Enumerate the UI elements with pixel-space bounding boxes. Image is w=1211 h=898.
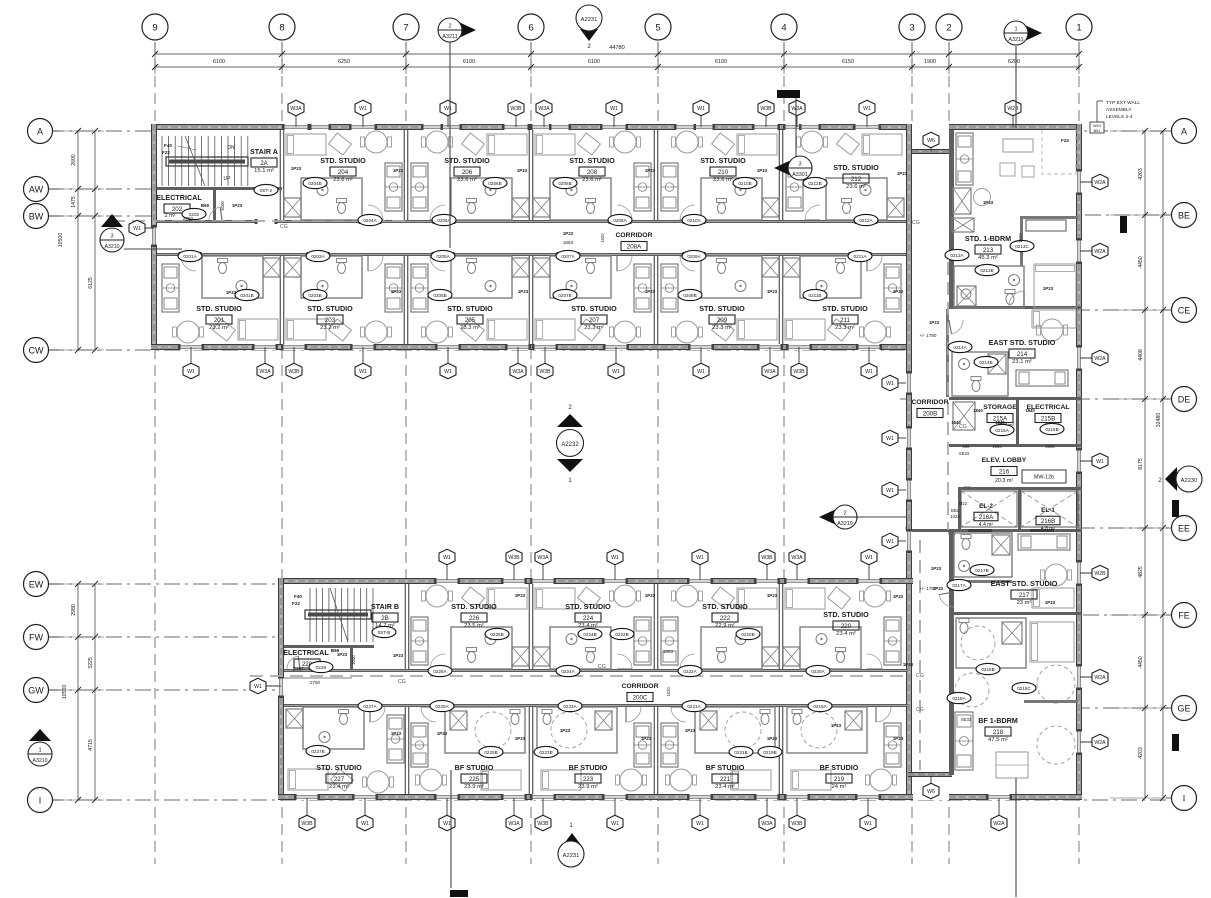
door tag 0224A — [556, 665, 580, 676]
wall tag W2A — [1080, 243, 1108, 259]
svg-text:206: 206 — [462, 169, 473, 176]
svg-text:0ST-B: 0ST-B — [378, 630, 391, 635]
door tag 0212B — [803, 177, 827, 188]
section marker A2232 center — [557, 405, 584, 484]
svg-text:W2A: W2A — [993, 821, 1005, 827]
svg-text:1000: 1000 — [220, 201, 225, 211]
svg-text:BB2: BB2 — [951, 508, 960, 513]
grid line column 6 — [530, 42, 532, 864]
room label STD. STUDIO 203 — [307, 304, 353, 331]
storage/electrical partition — [1016, 399, 1019, 445]
svg-text:0228: 0228 — [316, 665, 327, 670]
top wing exterior north wall — [151, 124, 912, 130]
svg-text:W2A: W2A — [1094, 356, 1106, 362]
svg-text:0212B: 0212B — [808, 181, 821, 186]
room label STD. STUDIO 206 — [444, 156, 490, 183]
party wall top wing row2 at x=656 — [653, 256, 655, 344]
room 214 table — [1041, 319, 1063, 341]
wall tag W1 — [439, 798, 455, 831]
grid line row A — [48, 130, 1170, 132]
svg-text:W1: W1 — [864, 821, 872, 827]
svg-text:W1: W1 — [443, 821, 451, 827]
svg-text:BF STUDIO: BF STUDIO — [569, 763, 608, 772]
room label STD. STUDIO 226 — [451, 602, 497, 629]
svg-text:0207B: 0207B — [558, 293, 571, 298]
typ ext wall note — [1090, 100, 1140, 133]
windows courtyard wall of right wing — [906, 371, 912, 395]
unit STD. STUDIO 207 interior — [550, 256, 611, 298]
dimension line overall 44780 — [152, 42, 1082, 74]
right dimension lines — [1110, 128, 1166, 801]
svg-text:+/- 1780: +/- 1780 — [920, 333, 937, 338]
wall tag W1 — [607, 549, 623, 580]
svg-text:32480: 32480 — [1156, 413, 1162, 428]
svg-text:W1: W1 — [361, 821, 369, 827]
svg-text:0213A: 0213A — [950, 253, 964, 258]
svg-text:A: A — [37, 126, 43, 136]
svg-text:2: 2 — [843, 511, 846, 517]
door tag 0210A — [682, 214, 706, 225]
wall tag W1 — [692, 549, 708, 580]
grid line row AW — [48, 188, 288, 190]
door tag 0223B — [534, 746, 558, 757]
door tag 0204A — [358, 214, 382, 225]
windows right wing south wall — [986, 794, 1012, 800]
wall tag W1 — [440, 100, 456, 127]
svg-text:1620: 1620 — [600, 233, 605, 243]
svg-text:W1: W1 — [187, 369, 195, 375]
wall tag W1 — [693, 100, 709, 127]
wall section bar BE — [1120, 216, 1127, 233]
svg-text:A2231: A2231 — [563, 853, 580, 859]
door tag 0221B — [729, 746, 753, 757]
svg-text:6125: 6125 — [88, 277, 94, 289]
unit BF STUDIO 225 interior — [445, 707, 525, 753]
svg-text:W1: W1 — [254, 684, 262, 690]
svg-text:STD. STUDIO: STD. STUDIO — [569, 156, 615, 165]
wall tag W1 — [250, 678, 281, 694]
svg-text:0206A: 0206A — [437, 218, 451, 223]
svg-text:STD. STUDIO: STD. STUDIO — [320, 156, 366, 165]
door tag 0218C — [1012, 682, 1036, 693]
grid bubble GE right — [1166, 696, 1197, 721]
svg-text:0204A: 0204A — [363, 218, 377, 223]
wall tag W3A — [510, 347, 526, 379]
door tag 0220A — [806, 665, 830, 676]
grid bubble 3 — [899, 14, 925, 40]
bottom wing north wall — [278, 578, 913, 584]
wall tag W2A — [1080, 174, 1108, 190]
wall tag W3A — [257, 347, 273, 379]
room label STD. STUDIO 205 — [447, 304, 493, 331]
svg-text:BF 1-BDRM: BF 1-BDRM — [978, 716, 1018, 725]
door tag 0201A — [178, 250, 202, 261]
svg-text:6100: 6100 — [715, 59, 727, 65]
room 214 kitchen — [1016, 370, 1068, 386]
svg-text:210: 210 — [718, 169, 729, 176]
wall tag W3B — [535, 798, 551, 831]
section marker A2230-2 right — [1158, 466, 1202, 492]
section marker A3210-3 left — [100, 214, 182, 252]
elevator EL-2 cab — [961, 491, 1017, 527]
svg-text:23.6 m²: 23.6 m² — [333, 177, 353, 183]
door tag 0204B — [303, 177, 327, 188]
room 217 table — [1045, 564, 1067, 586]
svg-text:23 m²: 23 m² — [1017, 600, 1032, 606]
room label BF STUDIO 223 — [569, 763, 608, 790]
svg-text:W1: W1 — [611, 821, 619, 827]
svg-text:0217B: 0217B — [975, 568, 988, 573]
svg-text:W1: W1 — [133, 226, 141, 232]
door tag 0203A — [306, 250, 330, 261]
door tag 0213C — [1010, 240, 1034, 251]
grid line column 1 — [1078, 42, 1080, 864]
svg-text:W3B: W3B — [539, 369, 551, 375]
svg-text:W1: W1 — [1096, 459, 1104, 465]
corridor 200B east wall — [946, 309, 949, 397]
svg-text:W1: W1 — [612, 369, 620, 375]
svg-text:15.1 m²: 15.1 m² — [254, 168, 274, 174]
svg-text:EAST STD. STUDIO: EAST STD. STUDIO — [989, 338, 1056, 347]
svg-text:10500: 10500 — [58, 233, 64, 248]
svg-text:23.6 m²: 23.6 m² — [713, 177, 733, 183]
door tag 0206B — [483, 177, 507, 188]
room label STD. STUDIO 210 — [700, 156, 746, 183]
grid bubble I right — [1166, 786, 1197, 811]
svg-text:4450: 4450 — [1138, 256, 1144, 268]
svg-text:0208A: 0208A — [613, 218, 627, 223]
unit STD. STUDIO 226 interior — [487, 588, 527, 609]
svg-text:1P23: 1P23 — [515, 736, 526, 741]
wall tag W6 — [923, 132, 939, 152]
wall tag W3A — [535, 549, 551, 580]
svg-text:0208B: 0208B — [558, 181, 571, 186]
svg-text:W6: W6 — [927, 138, 935, 144]
wall tag W1 — [355, 100, 371, 127]
svg-text:1P23: 1P23 — [391, 731, 402, 736]
room 218 pod — [956, 618, 1026, 668]
left dimension lines — [58, 128, 104, 803]
grid bubble 1 — [1066, 14, 1092, 40]
svg-text:BW: BW — [29, 211, 44, 221]
party wall bottom wing row2 at x=781 — [778, 707, 780, 794]
svg-text:2: 2 — [448, 24, 451, 30]
svg-text:4.8 m²: 4.8 m² — [1041, 526, 1056, 532]
svg-text:0ST-2: 0ST-2 — [260, 188, 273, 193]
svg-text:212: 212 — [851, 176, 862, 183]
grid bubble 2 — [936, 14, 962, 40]
wall tag W1 — [861, 549, 877, 580]
corridor door openings bottom wing row2 — [361, 704, 379, 708]
wall tag W3A — [789, 100, 805, 127]
svg-text:I: I — [1183, 793, 1186, 803]
svg-text:EL-2: EL-2 — [979, 503, 993, 510]
grid line column 3 — [911, 42, 913, 864]
room 213 wall unit — [1026, 220, 1066, 231]
svg-text:45.3 m²: 45.3 m² — [978, 255, 998, 261]
svg-text:221: 221 — [720, 776, 731, 783]
svg-text:2980: 2980 — [71, 604, 77, 616]
svg-text:216B: 216B — [1041, 518, 1055, 525]
svg-text:1P23: 1P23 — [767, 736, 778, 741]
party wall bottom wing row1 at x=531 — [528, 584, 530, 669]
svg-text:0209B: 0209B — [683, 293, 696, 298]
svg-text:23.6 m²: 23.6 m² — [457, 177, 477, 183]
svg-text:BE: BE — [1178, 210, 1190, 220]
grid bubble 4 — [771, 14, 797, 40]
door tag 0211B — [803, 289, 827, 300]
svg-text:W3A: W3A — [512, 369, 524, 375]
svg-text:1P23: 1P23 — [897, 171, 908, 176]
svg-text:STD. STUDIO: STD. STUDIO — [307, 304, 353, 313]
svg-text:0214B: 0214B — [979, 360, 992, 365]
svg-text:ELECTRICAL: ELECTRICAL — [156, 193, 202, 202]
svg-text:EAST STD. STUDIO: EAST STD. STUDIO — [991, 579, 1058, 588]
svg-text:6250: 6250 — [338, 59, 350, 65]
windows top wing south wall — [178, 344, 204, 350]
elevator west wall — [958, 488, 961, 530]
svg-text:223: 223 — [583, 776, 594, 783]
svg-text:W1: W1 — [444, 369, 452, 375]
room label BF STUDIO 221 — [706, 763, 745, 790]
svg-text:A3210: A3210 — [837, 521, 853, 527]
stair A south wall — [157, 187, 282, 190]
svg-text:0223A: 0223A — [563, 704, 577, 709]
svg-text:0218C: 0218C — [1017, 686, 1031, 691]
grid line row CW — [48, 349, 922, 351]
svg-text:2750: 2750 — [183, 216, 194, 221]
corridor door openings bottom wing row1 — [431, 669, 449, 673]
section marker A3210-2 mid right — [819, 505, 906, 529]
wall tag W2A — [1080, 350, 1108, 366]
svg-text:W2A: W2A — [1094, 180, 1106, 186]
unit STD. STUDIO 209 interior — [701, 256, 762, 298]
svg-text:W3B: W3B — [793, 369, 805, 375]
room 217 bed — [1032, 588, 1074, 608]
svg-text:226: 226 — [469, 615, 480, 622]
svg-text:0225B: 0225B — [484, 750, 497, 755]
svg-text:1P23: 1P23 — [1045, 600, 1056, 605]
svg-text:EE: EE — [1178, 523, 1190, 533]
grid bubble 7 — [393, 14, 419, 40]
svg-text:LEVELS 2-4: LEVELS 2-4 — [1106, 114, 1133, 120]
grid line row DE — [900, 398, 1168, 400]
stair A center rail — [166, 157, 248, 166]
svg-text:4825: 4825 — [1138, 566, 1144, 578]
stair A flight — [162, 136, 248, 186]
svg-text:W3A: W3A — [508, 821, 520, 827]
svg-text:47.5 m²: 47.5 m² — [988, 737, 1008, 743]
door tag 0218B — [976, 663, 1000, 674]
svg-text:0220B: 0220B — [741, 632, 754, 637]
svg-text:213: 213 — [983, 247, 994, 254]
bottom wing south wall — [278, 794, 913, 800]
svg-text:201: 201 — [214, 317, 225, 324]
svg-text:STD. STUDIO: STD. STUDIO — [833, 163, 879, 172]
building footprint bottom wing — [278, 578, 913, 800]
svg-text:1980: 1980 — [992, 444, 1002, 449]
room 217 pod — [954, 533, 1012, 577]
svg-text:0213C: 0213C — [1015, 244, 1029, 249]
building footprint top wing — [151, 124, 912, 350]
svg-text:W2B: W2B — [1094, 571, 1106, 577]
svg-text:W3B: W3B — [760, 106, 772, 112]
room 218 bed — [1030, 622, 1074, 662]
door tag 0207A — [556, 250, 580, 261]
grid bubble 8 — [269, 14, 295, 40]
wall tag W3B — [758, 100, 774, 127]
dimension line segments — [152, 64, 1082, 70]
wall tag W1 — [608, 347, 624, 379]
svg-text:CG: CG — [398, 679, 406, 685]
svg-text:1P23: 1P23 — [518, 289, 529, 294]
svg-text:4408: 4408 — [1138, 349, 1144, 361]
wall tag W3B — [508, 100, 524, 127]
svg-text:I: I — [39, 795, 42, 805]
wall tag W1 — [861, 347, 877, 379]
svg-text:3: 3 — [110, 234, 113, 240]
door tag 0217B — [970, 564, 994, 575]
room label STAIR B 2B — [371, 602, 399, 629]
svg-text:6100: 6100 — [588, 59, 600, 65]
window bottom wing west wall — [278, 676, 284, 698]
wall tag W1 — [693, 347, 709, 379]
svg-text:6200: 6200 — [1008, 59, 1020, 65]
door tag 0222A — [678, 665, 702, 676]
svg-text:0222A: 0222A — [683, 669, 697, 674]
grid line row EE — [905, 527, 1168, 529]
door tag 0228 — [309, 661, 333, 672]
room 213 shaft SE33 upper — [953, 188, 971, 214]
svg-text:W3A: W3A — [791, 106, 803, 112]
svg-text:BF STUDIO: BF STUDIO — [820, 763, 859, 772]
svg-text:1P23: 1P23 — [645, 593, 656, 598]
right wing south wall — [949, 794, 1082, 800]
svg-text:W3A: W3A — [290, 106, 302, 112]
wall section bar GE — [1172, 734, 1179, 751]
svg-text:1840: 1840 — [951, 420, 961, 425]
party wall top wing row2 at x=531 — [528, 256, 530, 344]
room label STAIR A 2A — [250, 147, 278, 174]
room 214 bed area — [1032, 310, 1076, 328]
party wall top wing row1 at x=656 — [653, 130, 655, 220]
svg-text:W2B: W2B — [1007, 106, 1019, 112]
svg-text:1000: 1000 — [351, 655, 356, 665]
svg-text:0215A: 0215A — [995, 428, 1009, 433]
section marker A3301-3 — [774, 95, 812, 180]
door tag 0225A — [430, 700, 454, 711]
windows bottom wing south wall — [294, 794, 320, 800]
door tag 0212A — [854, 214, 878, 225]
door tag 0205B — [428, 289, 452, 300]
door tag 0209B — [678, 289, 702, 300]
svg-text:23.6 m²: 23.6 m² — [846, 184, 866, 190]
party wall bottom wing row2 at x=407 — [404, 707, 406, 794]
svg-text:CG: CG — [916, 707, 924, 713]
grid bubble CE right — [1166, 298, 1197, 323]
svg-text:202: 202 — [172, 206, 183, 213]
right wing east wall — [1076, 124, 1082, 800]
svg-text:0211B: 0211B — [809, 293, 822, 298]
svg-text:W1: W1 — [696, 555, 704, 561]
svg-text:1P23: 1P23 — [560, 728, 571, 733]
svg-text:44780: 44780 — [609, 45, 625, 51]
room 217 entry door — [939, 595, 954, 607]
svg-text:218: 218 — [993, 729, 1004, 736]
unit STD. STUDIO 208 interior — [535, 134, 575, 155]
svg-text:1023: 1023 — [950, 514, 960, 519]
svg-text:220: 220 — [841, 623, 852, 630]
room 213 small table — [974, 189, 991, 206]
grid bubble DE right — [1166, 387, 1197, 412]
svg-text:ELEV. LOBBY: ELEV. LOBBY — [982, 457, 1027, 464]
door tag 0206A — [432, 214, 456, 225]
svg-text:4203: 4203 — [1138, 747, 1144, 759]
door tag 0208B — [553, 177, 577, 188]
svg-text:STD. STUDIO: STD. STUDIO — [196, 304, 242, 313]
top wing corridor 208A north wall — [157, 220, 906, 223]
svg-text:A3211: A3211 — [442, 34, 457, 40]
svg-text:BF STUDIO: BF STUDIO — [706, 763, 745, 772]
grid bubble I left — [28, 788, 59, 813]
svg-text:1P23: 1P23 — [893, 289, 904, 294]
svg-text:227: 227 — [334, 776, 345, 783]
wall tag W1 — [606, 100, 622, 127]
svg-text:2B: 2B — [381, 615, 389, 622]
grid line row BW — [48, 215, 292, 217]
svg-text:0219A: 0219A — [813, 704, 827, 709]
room 213 bed — [1034, 264, 1076, 308]
svg-text:217: 217 — [1019, 592, 1030, 599]
svg-text:225: 225 — [469, 776, 480, 783]
svg-text:A3211: A3211 — [1008, 37, 1023, 43]
svg-text:EL-1: EL-1 — [1041, 507, 1055, 514]
svg-text:W6: W6 — [927, 789, 935, 795]
wall tag W1 — [1080, 453, 1108, 469]
svg-text:23.5 m²: 23.5 m² — [464, 623, 484, 629]
svg-text:1P23: 1P23 — [645, 168, 656, 173]
svg-text:6100: 6100 — [213, 59, 225, 65]
wall tag W3B — [789, 798, 805, 831]
wall tag W3A — [506, 798, 522, 831]
svg-text:GE: GE — [1177, 703, 1190, 713]
svg-text:1P23: 1P23 — [767, 289, 778, 294]
grid bubble BW left — [24, 204, 59, 229]
grid line column 9 — [154, 42, 156, 864]
svg-text:2 m²: 2 m² — [293, 667, 304, 673]
svg-text:23.3 m²: 23.3 m² — [835, 325, 855, 331]
grid bubble GW left — [24, 678, 59, 703]
svg-text:204: 204 — [338, 169, 349, 176]
partition 214/storage — [949, 397, 1082, 400]
partition elevators/217 at EE — [912, 529, 1082, 532]
top wing exterior west wall — [151, 124, 157, 350]
svg-text:214: 214 — [1017, 351, 1028, 358]
svg-text:1: 1 — [1076, 23, 1081, 34]
svg-text:W3A: W3A — [537, 555, 549, 561]
room 213 living furniture — [1003, 139, 1033, 152]
unit STD. STUDIO 227 interior — [303, 707, 364, 749]
svg-text:224: 224 — [583, 615, 594, 622]
wall tag W1 — [882, 375, 906, 391]
svg-text:0227B: 0227B — [311, 749, 324, 754]
svg-text:W3A: W3A — [791, 555, 803, 561]
wall tag W1 — [882, 482, 906, 498]
unit STD. STUDIO 222 interior — [737, 588, 777, 609]
svg-text:STD. STUDIO: STD. STUDIO — [823, 610, 869, 619]
svg-text:200B: 200B — [923, 410, 937, 417]
svg-text:1P23: 1P23 — [232, 203, 243, 208]
